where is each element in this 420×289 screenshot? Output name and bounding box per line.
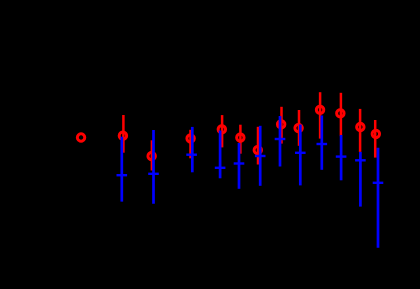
red data point P13: open circle marker with vertical error bar [372, 120, 379, 158]
blue error bar P10: vertical bar with horizontal center tick [317, 116, 328, 170]
blue error bar P8: vertical bar with horizontal center tick [275, 116, 286, 167]
blue error bar P12: vertical bar with horizontal center tick [355, 152, 366, 207]
red data point P8: open circle marker with vertical error bar [277, 107, 284, 144]
red data point P11: open circle marker with vertical error bar [337, 93, 344, 136]
blue error bar P4: vertical bar with horizontal center tick [186, 127, 197, 172]
blue error bar P9: vertical bar with horizontal center tick [295, 125, 306, 186]
red data point P4: open circle marker with vertical error bar [187, 130, 194, 159]
red data point P7: open circle marker with vertical error bar [254, 127, 261, 165]
blue error bar P13: vertical bar with horizontal center tick [373, 148, 384, 248]
red data point P2: open circle marker with vertical error bar [119, 115, 126, 153]
blue error bar P6: vertical bar with horizontal center tick [234, 143, 245, 189]
blue error bar P7: vertical bar with horizontal center tick [255, 126, 266, 186]
blue error bar P11: vertical bar with horizontal center tick [336, 135, 347, 180]
red data point P12: open circle marker with vertical error bar [357, 109, 364, 152]
blue error bar P2: vertical bar with horizontal center tick [117, 137, 128, 202]
blue error bar P3: vertical bar with horizontal center tick [148, 130, 159, 204]
red data point P3: open circle marker with vertical error bar [148, 140, 155, 170]
red data point P6: open circle marker with vertical error bar [237, 125, 244, 154]
blue error bar P5: vertical bar with horizontal center tick [215, 131, 226, 179]
red data point P9: open circle marker with vertical error bar [295, 110, 302, 146]
red data point P5: open circle marker with vertical error bar [218, 115, 225, 147]
red data point P1: open circle marker with vertical error bar [77, 134, 84, 141]
red data point P10: open circle marker with vertical error bar [316, 92, 323, 138]
